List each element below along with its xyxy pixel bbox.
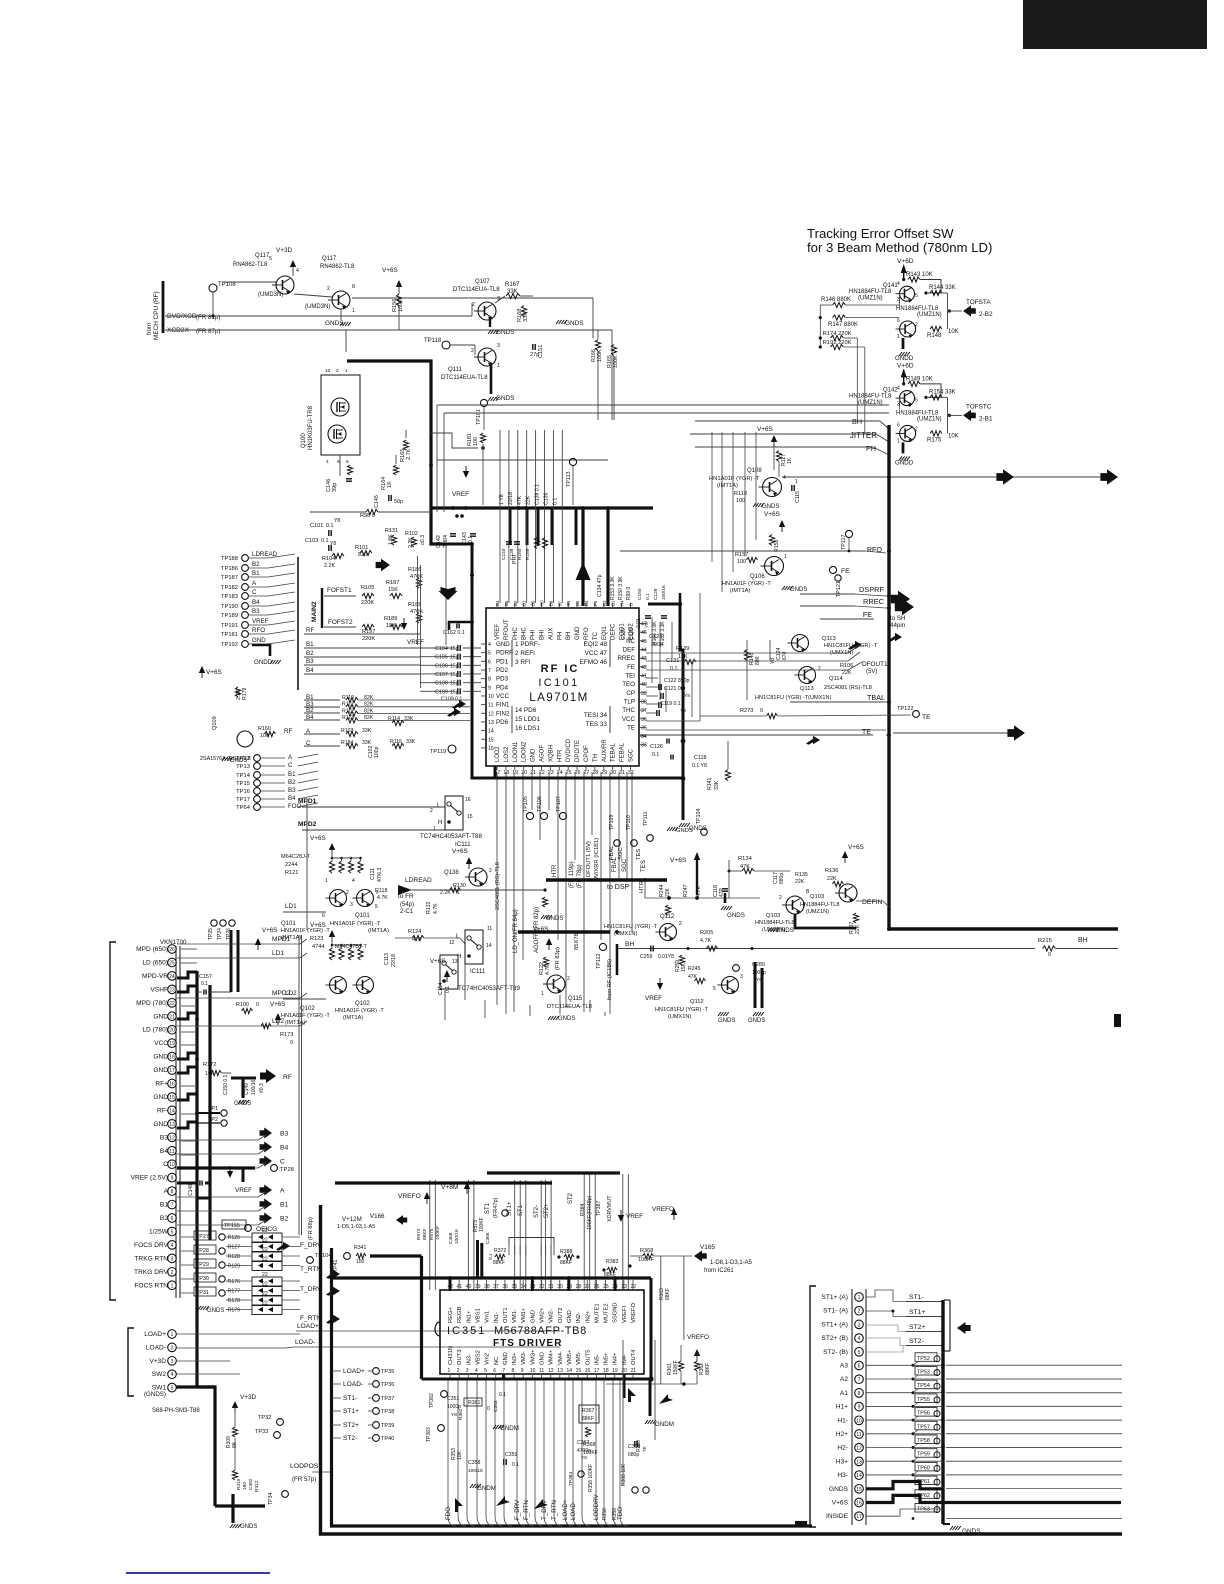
svg-text:R102: R102 <box>405 531 418 537</box>
svg-text:R245: R245 <box>688 966 701 972</box>
svg-text:INSIDE: INSIDE <box>826 1513 849 1520</box>
svg-text:LOAD+: LOAD+ <box>144 1331 166 1338</box>
svg-text:5: 5 <box>269 256 272 262</box>
svg-text:10: 10 <box>488 694 494 700</box>
svg-text:GND: GND <box>575 626 581 640</box>
svg-text:15 LDD1: 15 LDD1 <box>515 716 541 723</box>
svg-text:TP14: TP14 <box>236 773 251 779</box>
svg-text:LOAD+: LOAD+ <box>562 1499 569 1520</box>
svg-text:RF: RF <box>283 1074 292 1081</box>
svg-text:R358 160KF: R358 160KF <box>588 1464 594 1492</box>
svg-text:(UMZ1N): (UMZ1N) <box>917 416 942 422</box>
svg-text:Q108: Q108 <box>747 468 762 474</box>
svg-text:IN1-: IN1- <box>494 1312 500 1323</box>
svg-text:1: 1 <box>795 479 798 485</box>
svg-text:TP113: TP113 <box>566 472 572 487</box>
svg-text:36: 36 <box>641 717 647 723</box>
svg-text:88KF: 88KF <box>665 1288 671 1300</box>
svg-text:4: 4 <box>352 878 355 884</box>
svg-text:TP104: TP104 <box>315 1253 331 1259</box>
svg-text:VM4-: VM4- <box>558 1351 564 1365</box>
svg-text:TE: TE <box>627 724 635 731</box>
svg-text:C358: C358 <box>468 1460 481 1466</box>
svg-text:V166: V166 <box>370 1213 385 1220</box>
svg-text:B2: B2 <box>513 600 518 606</box>
svg-text:V+3D: V+3D <box>240 1394 257 1401</box>
svg-text:IC111: IC111 <box>470 969 486 975</box>
svg-text:GNDS: GNDS <box>676 828 693 834</box>
svg-text:C130: C130 <box>621 628 627 640</box>
svg-text:LODDRV: LODDRV <box>593 1493 600 1520</box>
svg-text:ST2-: ST2- <box>343 1435 357 1442</box>
svg-text:TP101: TP101 <box>476 409 482 425</box>
svg-text:C133: C133 <box>629 628 635 640</box>
svg-text:R173: R173 <box>280 1032 293 1038</box>
svg-text:ST2-: ST2- <box>534 1205 540 1218</box>
svg-text:ST1+: ST1+ <box>909 1309 925 1316</box>
svg-text:OUT1: OUT1 <box>503 1308 509 1323</box>
svg-text:100: 100 <box>473 437 479 446</box>
svg-text:RF-: RF- <box>157 1107 168 1114</box>
svg-text:22K: 22K <box>827 876 837 882</box>
svg-text:R187: R187 <box>386 580 399 586</box>
svg-text:TP27: TP27 <box>196 1234 209 1240</box>
svg-text:TP387: TP387 <box>596 1201 602 1216</box>
svg-text:from RF (IC1B6): from RF (IC1B6) <box>607 959 613 1000</box>
svg-text:15p: 15p <box>450 663 459 669</box>
svg-text:REGB: REGB <box>457 1306 463 1323</box>
svg-text:R388: R388 <box>560 1249 573 1255</box>
svg-text:V+6S: V+6S <box>452 848 468 855</box>
svg-text:2: 2 <box>457 1368 460 1374</box>
svg-text:1: 1 <box>325 878 328 884</box>
svg-text:R186: R186 <box>408 567 421 573</box>
svg-text:33K: 33K <box>523 312 529 322</box>
svg-text:ST2+: ST2+ <box>343 1422 359 1429</box>
svg-text:0.1: 0.1 <box>552 498 558 505</box>
svg-text:8: 8 <box>858 1391 861 1397</box>
svg-text:TP107: TP107 <box>556 796 562 812</box>
svg-text:ST1-: ST1- <box>909 1294 924 1301</box>
svg-text:1/25W: 1/25W <box>149 1228 169 1235</box>
svg-text:DEF: DEF <box>623 646 636 653</box>
svg-text:B2: B2 <box>306 650 314 657</box>
svg-text:TP122: TP122 <box>897 706 913 712</box>
svg-text:FE: FE <box>863 610 872 619</box>
svg-text:PHI: PHI <box>531 630 537 640</box>
svg-text:88KF: 88KF <box>705 1363 711 1375</box>
svg-text:TP16: TP16 <box>236 789 250 795</box>
svg-text:2: 2 <box>489 868 492 874</box>
svg-text:A1: A1 <box>840 1390 848 1397</box>
svg-text:TP383: TP383 <box>426 1427 432 1442</box>
svg-text:(IMT1A): (IMT1A) <box>343 1015 363 1021</box>
svg-text:Q101: Q101 <box>355 913 370 919</box>
svg-text:Q107: Q107 <box>475 279 490 285</box>
svg-text:LDREAD: LDREAD <box>405 877 432 884</box>
svg-text:17: 17 <box>169 1068 175 1074</box>
svg-text:GND: GND <box>503 1352 509 1365</box>
svg-text:2: 2 <box>779 895 782 901</box>
svg-text:VM3+: VM3+ <box>530 1349 536 1365</box>
svg-text:2-B2: 2-B2 <box>979 311 993 318</box>
svg-text:14: 14 <box>169 1108 175 1114</box>
svg-text:VREF (2.5V): VREF (2.5V) <box>131 1175 168 1182</box>
svg-text:FOFST1: FOFST1 <box>327 587 352 594</box>
svg-text:33K: 33K <box>362 740 372 746</box>
svg-text:Q102: Q102 <box>355 1001 370 1007</box>
svg-text:VM4+: VM4+ <box>549 1349 555 1365</box>
svg-text:B4: B4 <box>280 1145 289 1152</box>
svg-text:3 RFI: 3 RFI <box>515 659 531 666</box>
svg-text:FTS DRIVER: FTS DRIVER <box>493 1338 562 1349</box>
svg-text:C289: C289 <box>752 962 765 968</box>
svg-text:LOON2: LOON2 <box>522 741 528 762</box>
svg-text:o0.3: o0.3 <box>420 535 426 545</box>
svg-text:VM1+: VM1+ <box>521 1307 527 1323</box>
svg-text:C105: C105 <box>435 655 448 661</box>
svg-text:2: 2 <box>346 890 349 896</box>
svg-text:14: 14 <box>488 729 494 735</box>
svg-text:VREFO: VREFO <box>652 1206 674 1213</box>
svg-text:AGOF: AGOF <box>540 745 546 762</box>
svg-text:Q106: Q106 <box>750 574 765 580</box>
svg-text:12: 12 <box>449 940 455 946</box>
svg-text:R205: R205 <box>700 930 713 936</box>
svg-text:IN3-: IN3- <box>466 1354 472 1365</box>
svg-text:2-B1: 2-B1 <box>979 415 993 422</box>
svg-text:R104: R104 <box>322 556 335 562</box>
svg-text:100p: 100p <box>374 746 380 758</box>
svg-text:PH: PH <box>557 632 563 640</box>
svg-text:C: C <box>280 1159 285 1166</box>
svg-text:C122 390p: C122 390p <box>664 678 689 684</box>
svg-text:LOAD-: LOAD- <box>295 1339 315 1346</box>
svg-text:TRKG RTN: TRKG RTN <box>134 1255 168 1262</box>
svg-text:GND: GND <box>153 1067 168 1074</box>
svg-text:1: 1 <box>897 334 900 340</box>
svg-text:PD6: PD6 <box>496 719 509 726</box>
svg-text:10: 10 <box>856 1418 862 1424</box>
svg-text:TBAL: TBAL <box>867 693 885 702</box>
svg-text:ST2- (B): ST2- (B) <box>823 1349 848 1356</box>
svg-text:B0: B0 <box>531 600 536 606</box>
svg-text:TP31: TP31 <box>196 1290 209 1296</box>
svg-text:IN2+: IN2+ <box>585 1310 591 1323</box>
svg-text:HN1A01F (YGR) -T: HN1A01F (YGR) -T <box>722 581 771 587</box>
svg-text:C126: C126 <box>650 744 663 750</box>
svg-text:REG+: REG+ <box>448 1306 454 1323</box>
svg-text:DSPRF: DSPRF <box>859 585 885 594</box>
svg-text:R129: R129 <box>228 1264 241 1270</box>
svg-text:TP187: TP187 <box>221 575 238 581</box>
svg-text:TP64: TP64 <box>236 805 251 811</box>
svg-text:Q101: Q101 <box>281 921 296 927</box>
svg-text:Q115: Q115 <box>568 996 583 1002</box>
svg-text:R2: R2 <box>602 600 607 606</box>
svg-text:R312: R312 <box>254 1480 260 1492</box>
svg-text:FOCS DRV: FOCS DRV <box>134 1242 169 1249</box>
svg-text:R150 3.9K: R150 3.9K <box>618 576 624 600</box>
svg-text:2.7K: 2.7K <box>406 448 412 460</box>
svg-text:GNDS: GNDS <box>748 1018 765 1024</box>
svg-text:GND: GND <box>153 1013 168 1020</box>
svg-text:Q113: Q113 <box>822 636 836 642</box>
svg-text:RN4862-TL8: RN4862-TL8 <box>233 262 268 268</box>
svg-text:8: 8 <box>488 677 491 683</box>
svg-text:TP54: TP54 <box>917 1383 930 1389</box>
svg-text:16: 16 <box>585 1368 591 1374</box>
svg-text:R178: R178 <box>228 1298 241 1304</box>
svg-text:R172: R172 <box>203 1062 216 1068</box>
svg-text:22: 22 <box>262 1301 268 1307</box>
svg-text:390p: 390p <box>651 642 663 648</box>
svg-text:(FR 78p): (FR 78p) <box>577 864 583 888</box>
svg-text:33K: 33K <box>714 780 720 790</box>
svg-text:VCC: VCC <box>622 716 636 723</box>
svg-text:4: 4 <box>897 281 900 287</box>
svg-text:33K: 33K <box>362 728 372 734</box>
svg-text:TES: TES <box>636 849 642 860</box>
svg-text:VREFO: VREFO <box>687 1334 709 1341</box>
svg-text:FIN1: FIN1 <box>496 702 510 709</box>
svg-text:C107: C107 <box>435 672 448 678</box>
svg-text:15p: 15p <box>450 655 459 661</box>
svg-text:19: 19 <box>512 770 518 776</box>
svg-text:TP56: TP56 <box>917 1411 930 1417</box>
svg-text:6: 6 <box>493 1368 496 1374</box>
svg-text:1: 1 <box>433 826 436 832</box>
svg-text:TP105: TP105 <box>523 796 529 812</box>
svg-text:3: 3 <box>171 1359 174 1365</box>
svg-text:2: 2 <box>171 1345 174 1351</box>
svg-text:B4: B4 <box>160 1148 168 1155</box>
svg-text:TES: TES <box>640 860 647 872</box>
svg-text:1-D5,1-03,1-A5: 1-D5,1-03,1-A5 <box>337 1224 375 1230</box>
svg-text:PHC: PHC <box>513 627 519 640</box>
svg-text:12: 12 <box>169 1135 175 1141</box>
svg-text:C109: C109 <box>435 689 448 695</box>
svg-text:ST1+ (A): ST1+ (A) <box>821 1294 848 1301</box>
svg-text:(UMD3N): (UMD3N) <box>305 304 330 310</box>
svg-text:VSHF: VSHF <box>150 986 168 993</box>
svg-text:(UMX1N): (UMX1N) <box>614 931 637 937</box>
svg-text:100/16: 100/16 <box>454 1229 460 1244</box>
svg-text:ST2-: ST2- <box>909 1338 924 1345</box>
svg-text:H3+: H3+ <box>836 1458 848 1465</box>
svg-text:GNDS: GNDS <box>718 1018 735 1024</box>
svg-text:16: 16 <box>488 746 494 752</box>
svg-text:TP25: TP25 <box>208 928 214 940</box>
svg-text:GNDS: GNDS <box>325 320 343 327</box>
svg-text:22: 22 <box>262 1291 268 1297</box>
svg-text:1: 1 <box>171 1283 174 1289</box>
svg-text:C359: C359 <box>505 1452 518 1458</box>
svg-text:33: 33 <box>641 743 647 749</box>
svg-text:(IMT1A): (IMT1A) <box>730 588 750 594</box>
svg-text:2: 2 <box>915 322 918 328</box>
svg-text:GNDS: GNDS <box>496 395 514 402</box>
svg-text:TP106: TP106 <box>537 796 543 812</box>
svg-text:4: 4 <box>171 1372 174 1378</box>
svg-text:1: 1 <box>858 1295 861 1301</box>
svg-text:Q100: Q100 <box>301 433 307 448</box>
svg-text:2: 2 <box>472 302 475 308</box>
svg-text:H1-: H1- <box>837 1417 848 1424</box>
svg-text:22: 22 <box>262 1282 268 1288</box>
svg-text:R113: R113 <box>342 715 354 721</box>
svg-text:47/6.3: 47/6.3 <box>377 867 383 882</box>
svg-text:FE: FE <box>627 664 635 671</box>
svg-text:11: 11 <box>487 926 492 932</box>
svg-text:220K: 220K <box>361 600 374 606</box>
svg-text:VM3-: VM3- <box>521 1351 527 1365</box>
svg-text:228/4: 228/4 <box>443 535 449 548</box>
svg-text:B2: B2 <box>160 1215 168 1222</box>
svg-text:GNDS: GNDS <box>240 1524 257 1530</box>
svg-text:R99 0: R99 0 <box>626 586 632 600</box>
svg-text:R575: R575 <box>429 1228 435 1240</box>
svg-text:LOD2: LOD2 <box>495 746 501 762</box>
svg-text:DFOUT1 (5V): DFOUT1 (5V) <box>586 841 592 877</box>
svg-text:V+3D: V+3D <box>149 1358 166 1365</box>
svg-text:180: 180 <box>242 1482 248 1490</box>
svg-text:LD (780): LD (780) <box>142 1027 168 1034</box>
svg-text:B4: B4 <box>252 599 260 606</box>
svg-text:22/18: 22/18 <box>508 492 514 505</box>
svg-text:100KF: 100KF <box>479 1217 485 1232</box>
svg-text:RF: RF <box>284 728 292 735</box>
svg-text:100: 100 <box>736 498 745 504</box>
svg-text:4.7K: 4.7K <box>377 895 388 901</box>
svg-text:RFO: RFO <box>584 627 590 640</box>
svg-text:100/16: 100/16 <box>661 585 667 600</box>
svg-text:15: 15 <box>169 1095 175 1101</box>
svg-text:IN3+: IN3+ <box>512 1352 518 1365</box>
svg-text:ST1-: ST1- <box>518 1203 524 1216</box>
svg-text:DTC114EUA-TL8: DTC114EUA-TL8 <box>441 375 488 381</box>
svg-text:21: 21 <box>631 1368 637 1374</box>
svg-text:TP188: TP188 <box>221 556 238 562</box>
svg-text:C104: C104 <box>435 646 448 652</box>
svg-text:7: 7 <box>858 1377 861 1383</box>
svg-text:GND: GND <box>252 637 266 644</box>
svg-text:OEICG: OEICG <box>256 1226 277 1233</box>
svg-text:B5: B5 <box>504 600 509 606</box>
svg-text:C108: C108 <box>435 681 448 687</box>
svg-text:DEFC: DEFC <box>611 623 617 640</box>
svg-text:10K: 10K <box>948 433 959 439</box>
svg-text:to DSP: to DSP <box>607 884 630 891</box>
svg-text:(FR 81p): (FR 81p) <box>196 314 220 321</box>
svg-text:GND: GND <box>153 1121 168 1128</box>
svg-text:22K: 22K <box>526 495 532 505</box>
svg-text:R144 33K: R144 33K <box>929 285 956 291</box>
svg-text:VBS2: VBS2 <box>475 1350 481 1365</box>
svg-text:A: A <box>280 1188 285 1195</box>
svg-text:13: 13 <box>488 720 494 726</box>
svg-text:1-D8,1-D3,1-A5: 1-D8,1-D3,1-A5 <box>710 1260 753 1266</box>
svg-text:TP119: TP119 <box>430 749 446 755</box>
svg-text:TP121: TP121 <box>836 581 842 597</box>
svg-text:R177: R177 <box>228 1289 241 1295</box>
svg-text:88KF: 88KF <box>422 1228 428 1240</box>
svg-text:V+6S: V+6S <box>533 926 548 933</box>
svg-text:V+6D: V+6D <box>897 362 914 369</box>
svg-text:5: 5 <box>171 1229 174 1235</box>
svg-text:C150 0.1: C150 0.1 <box>223 1074 229 1095</box>
svg-text:HTR: HTR <box>552 864 558 877</box>
svg-text:F_DRV: F_DRV <box>300 1242 322 1249</box>
svg-text:11: 11 <box>488 703 493 709</box>
svg-text:4: 4 <box>488 642 491 648</box>
svg-text:B5: B5 <box>575 600 580 606</box>
svg-text:SGC: SGC <box>629 748 635 762</box>
svg-text:GND: GND <box>530 1310 536 1323</box>
svg-text:VBS1: VBS1 <box>475 1308 481 1323</box>
svg-text:EQI1: EQI1 <box>602 626 608 640</box>
svg-text:(GNDS): (GNDS) <box>144 1391 166 1398</box>
svg-text:680p: 680p <box>628 1452 639 1458</box>
svg-text:10K: 10K <box>948 329 959 335</box>
svg-text:TP29: TP29 <box>196 1262 209 1268</box>
svg-text:TP109: TP109 <box>609 815 615 830</box>
svg-text:OUT3: OUT3 <box>457 1350 463 1365</box>
svg-text:B8: B8 <box>548 600 553 606</box>
svg-text:B4: B4 <box>584 600 589 606</box>
svg-text:VM5+: VM5+ <box>567 1349 573 1365</box>
svg-text:B1: B1 <box>252 570 260 577</box>
svg-text:ST2+ (B): ST2+ (B) <box>821 1335 848 1342</box>
svg-text:PD3: PD3 <box>496 676 509 683</box>
svg-text:2: 2 <box>336 368 339 374</box>
svg-text:TP192: TP192 <box>221 642 238 648</box>
svg-text:TE: TE <box>922 714 931 721</box>
svg-text:R273: R273 <box>740 708 753 714</box>
svg-text:VCC 47: VCC 47 <box>585 650 608 657</box>
svg-text:MPD (780): MPD (780) <box>136 1000 168 1007</box>
svg-text:160KF: 160KF <box>583 1450 598 1456</box>
svg-text:TP36: TP36 <box>381 1382 394 1388</box>
svg-text:TOFSTC: TOFSTC <box>966 403 992 410</box>
svg-text:88KF: 88KF <box>560 1260 572 1266</box>
svg-text:1: 1 <box>171 1332 174 1338</box>
svg-text:(FR 87p): (FR 87p) <box>196 328 220 335</box>
svg-text:VREF: VREF <box>235 1187 252 1194</box>
svg-text:GNDS: GNDS <box>558 1016 575 1022</box>
svg-text:(IMT1A): (IMT1A) <box>368 928 389 934</box>
svg-text:1: 1 <box>497 363 500 369</box>
svg-text:TP38: TP38 <box>381 1409 394 1415</box>
svg-text:PHI: PHI <box>512 555 518 564</box>
svg-text:12: 12 <box>548 1368 554 1374</box>
svg-text:VREF: VREF <box>495 624 501 640</box>
svg-text:#0.3: #0.3 <box>259 1083 265 1093</box>
svg-text:DVD/CD: DVD/CD <box>566 738 572 762</box>
svg-text:C352: C352 <box>248 1478 254 1490</box>
svg-text:MPD2: MPD2 <box>272 990 291 997</box>
svg-text:C150: C150 <box>637 588 643 600</box>
svg-text:LOS2: LOS2 <box>504 746 510 762</box>
svg-text:(IMT1A): (IMT1A) <box>285 1020 305 1026</box>
svg-text:2.2K: 2.2K <box>440 890 451 896</box>
svg-text:ST1- (A): ST1- (A) <box>823 1308 848 1315</box>
svg-text:LOAD-: LOAD- <box>343 1381 363 1388</box>
svg-text:9: 9 <box>858 1405 861 1411</box>
svg-text:(FR47p): (FR47p) <box>493 1197 499 1218</box>
svg-text:R358: R358 <box>602 1508 608 1520</box>
svg-text:F_DRV: F_DRV <box>514 1499 521 1520</box>
